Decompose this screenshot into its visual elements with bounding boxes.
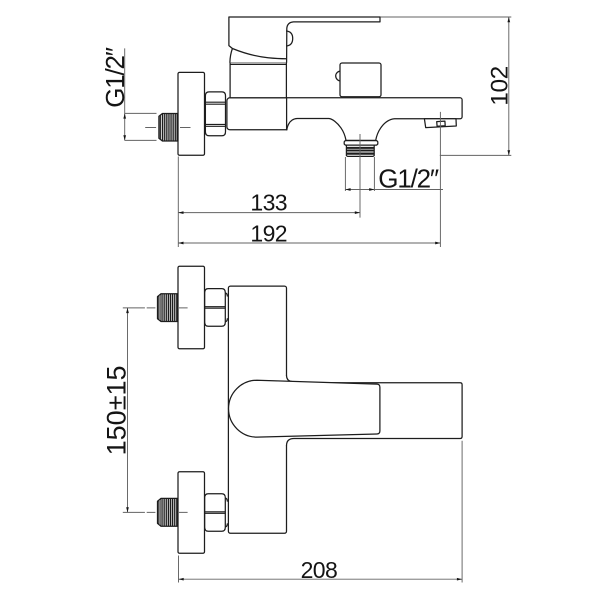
svg-text:102: 102 <box>486 66 513 105</box>
svg-text:G1/2″: G1/2″ <box>100 47 130 108</box>
svg-text:208: 208 <box>301 557 338 583</box>
svg-text:192: 192 <box>250 220 287 246</box>
svg-text:150±15: 150±15 <box>101 365 131 455</box>
svg-text:G1/2″: G1/2″ <box>378 164 439 194</box>
svg-text:133: 133 <box>250 190 287 216</box>
